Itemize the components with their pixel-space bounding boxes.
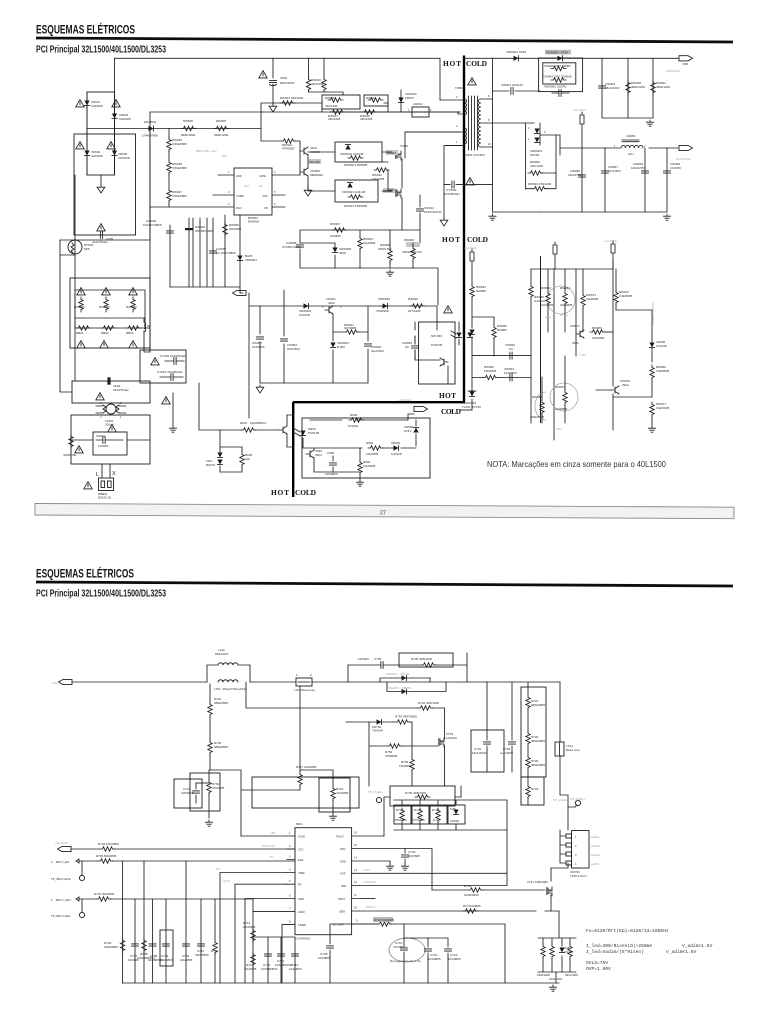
svg-text:LED2+: LED2+ bbox=[591, 844, 601, 848]
svg-text:1: 1 bbox=[228, 170, 230, 174]
svg-text:103/0805NC: 103/0805NC bbox=[261, 967, 279, 971]
resistor R717b bbox=[463, 909, 478, 913]
svg-text:5R5: 5R5 bbox=[84, 247, 90, 251]
svg-text:VSB: VSB bbox=[682, 62, 688, 66]
svg-text:6: 6 bbox=[289, 894, 291, 898]
svg-text:104/25V: 104/25V bbox=[670, 166, 681, 170]
svg-text:103/0.5kVNC: 103/0.5kVNC bbox=[424, 210, 443, 214]
svg-text:5uH: 5uH bbox=[628, 152, 634, 156]
svg-text:V761: V761 bbox=[527, 880, 534, 884]
svg-text:8: 8 bbox=[289, 920, 291, 924]
svg-text:10k/0805: 10k/0805 bbox=[363, 464, 376, 468]
svg-text:SRA/0805: SRA/0805 bbox=[195, 953, 209, 957]
wire secondary vertical bbox=[492, 58, 494, 212]
svg-text:RA1206: RA1206 bbox=[99, 305, 110, 309]
svg-text:R707: R707 bbox=[94, 892, 102, 896]
bus cluster bbox=[170, 286, 240, 288]
svg-text:5: 5 bbox=[274, 190, 276, 194]
diode VDW904 bbox=[558, 56, 563, 61]
warn box1 bbox=[96, 393, 104, 400]
svg-text:RW907: RW907 bbox=[330, 222, 340, 226]
svg-text:COLD: COLD bbox=[441, 407, 461, 416]
resistor R731 bbox=[526, 695, 530, 710]
svg-text:RB01: RB01 bbox=[76, 331, 84, 335]
svg-text:TP_BKLT-ADJ: TP_BKLT-ADJ bbox=[51, 914, 71, 918]
svg-text:2R0/1206: 2R0/1206 bbox=[549, 977, 562, 981]
pin +12.2Vsb opto bbox=[470, 249, 474, 261]
ground 100V bbox=[646, 120, 653, 126]
svg-text:CB: CB bbox=[264, 206, 268, 210]
inductor LW966 bbox=[622, 140, 639, 142]
transistor VW906 bbox=[300, 168, 308, 176]
pins xw701 bbox=[566, 834, 572, 838]
resistor RA01 bbox=[79, 297, 83, 312]
capacitor C704 bbox=[183, 944, 190, 946]
ground bottom cold bbox=[356, 480, 363, 486]
capacitor C753 bbox=[509, 742, 516, 744]
wire rectifier out bbox=[540, 135, 678, 148]
svg-text:4160: 4160 bbox=[328, 301, 335, 305]
svg-text:1N4148: 1N4148 bbox=[299, 313, 310, 317]
bus fb1 bbox=[472, 355, 531, 357]
svg-text:101/0805: 101/0805 bbox=[448, 957, 461, 961]
dual diode VDW903 bbox=[526, 123, 540, 189]
svg-text:10P/0805: 10P/0805 bbox=[106, 842, 119, 846]
svg-text:PV/1206: PV/1206 bbox=[413, 818, 425, 822]
svg-text:+12.2Vsb: +12.2Vsb bbox=[464, 246, 477, 250]
wire c726 top bbox=[196, 782, 209, 784]
svg-text:0.9k/0805: 0.9k/0805 bbox=[656, 406, 670, 410]
svg-text:CY602 103/250Vac: CY602 103/250Vac bbox=[160, 354, 186, 358]
svg-text:9: 9 bbox=[356, 919, 358, 923]
svg-text:476/0805: 476/0805 bbox=[393, 945, 406, 949]
diode VDW910 bbox=[345, 145, 350, 150]
svg-text:VIN: VIN bbox=[52, 681, 57, 685]
resistor RW90C bbox=[358, 236, 362, 251]
wire stub to cold box bbox=[287, 415, 293, 447]
box bottom cold bbox=[302, 418, 430, 478]
svg-text:5: 5 bbox=[289, 879, 291, 883]
svg-text:CHR208: CHR208 bbox=[91, 154, 103, 158]
diode VD966 bbox=[413, 428, 418, 433]
resistor R712 bbox=[213, 940, 217, 955]
left pin stubs bbox=[287, 836, 295, 925]
boxed row R70B2 bbox=[412, 805, 429, 824]
box filter upper bbox=[140, 350, 186, 383]
ground mid cluster bbox=[256, 385, 264, 393]
svg-text:10k/0805: 10k/0805 bbox=[484, 369, 497, 373]
capacitor C708 bbox=[149, 944, 156, 946]
svg-text:2: 2 bbox=[430, 108, 432, 112]
svg-text:R704: R704 bbox=[98, 842, 106, 846]
resistor RW918 bbox=[362, 110, 377, 114]
svg-text:Da segurança até o fim: Da segurança até o fim bbox=[390, 959, 422, 963]
diode VD964 bbox=[394, 445, 399, 450]
diode VDW960 bbox=[383, 303, 388, 308]
svg-text:TP_VLED+: TP_VLED+ bbox=[368, 790, 383, 794]
transistor VW921 bbox=[325, 306, 333, 314]
capacitor CW963 bbox=[510, 374, 512, 381]
svg-text:TL431 BOT25: TL431 BOT25 bbox=[462, 405, 481, 409]
svg-text:RW912: RW912 bbox=[366, 96, 376, 100]
resistor left edge bbox=[69, 434, 73, 449]
svg-text:+12.2Vsb: +12.2Vsb bbox=[573, 108, 586, 112]
svg-text:47R/1206: 47R/1206 bbox=[530, 164, 543, 168]
wire top cold bus bbox=[464, 57, 678, 59]
svg-text:VD751: VD751 bbox=[402, 686, 412, 690]
capacitor CAW67 bbox=[210, 251, 217, 253]
bus fb2 bbox=[472, 356, 531, 391]
gray circle 3 bbox=[535, 392, 546, 420]
divider line 2 bbox=[292, 402, 294, 497]
grounds drv bbox=[386, 864, 393, 870]
resistor R701 bbox=[208, 702, 212, 717]
svg-text:GND: GND bbox=[340, 860, 346, 864]
svg-text:680k/0805: 680k/0805 bbox=[531, 763, 545, 767]
svg-text:69V/1206: 69V/1206 bbox=[565, 973, 578, 977]
wire y91 bbox=[493, 90, 541, 92]
bus bottom bbox=[123, 982, 559, 984]
svg-text:1N4148: 1N4148 bbox=[656, 344, 667, 348]
wire main vertical right bbox=[560, 682, 568, 830]
resistor R753 bbox=[410, 757, 414, 772]
svg-text:104/0805: 104/0805 bbox=[252, 345, 265, 349]
resistor RW921 bbox=[344, 330, 359, 334]
capacitor C601 bbox=[272, 58, 274, 104]
svg-text:R944: R944 bbox=[366, 441, 374, 445]
resistor RW971 bbox=[581, 293, 585, 308]
divider line 1 bbox=[463, 56, 465, 403]
svg-text:BKLT_ADJ: BKLT_ADJ bbox=[56, 898, 71, 902]
opto M960 bbox=[300, 431, 305, 436]
wire mosfets bbox=[382, 152, 402, 230]
svg-text:SS2200: SS2200 bbox=[386, 672, 397, 676]
svg-text:HOT: HOT bbox=[442, 235, 460, 244]
svg-text:LED3+: LED3+ bbox=[591, 853, 601, 857]
svg-text:1N4007R6b: 1N4007R6b bbox=[142, 134, 158, 138]
svg-text:10: 10 bbox=[354, 906, 357, 910]
resistor R70B bbox=[142, 938, 146, 953]
header rule 1 bbox=[36, 37, 733, 44]
vertical CW952 bbox=[283, 290, 285, 383]
svg-text:68uF/200V: 68uF/200V bbox=[605, 86, 620, 90]
svg-text:CW904 CRV 2050HZ: CW904 CRV 2050HZ bbox=[543, 75, 572, 79]
resistor RW90x bbox=[223, 222, 227, 237]
svg-text:MD1: MD1 bbox=[296, 822, 303, 826]
svg-text:PROT: PROT bbox=[338, 897, 346, 901]
wire y722 bbox=[346, 721, 412, 723]
resistor R717m bbox=[298, 772, 302, 787]
wire caps top bbox=[486, 682, 488, 730]
svg-text:848k/120E: 848k/120E bbox=[214, 133, 228, 137]
svg-text:BAV70: BAV70 bbox=[206, 463, 215, 467]
svg-text:VDW913 1N4148: VDW913 1N4148 bbox=[342, 190, 366, 194]
svg-text:PC817B: PC817B bbox=[431, 343, 442, 347]
svg-text:10k/0805: 10k/0805 bbox=[366, 452, 379, 456]
bus2 wire bbox=[87, 103, 460, 129]
svg-text:12: 12 bbox=[354, 880, 357, 884]
svg-text:15.0a: 15.0a bbox=[560, 313, 568, 317]
svg-text:NW 960: NW 960 bbox=[431, 334, 442, 338]
wire y305 bbox=[380, 306, 437, 322]
capacitor C711 bbox=[198, 944, 205, 946]
header rule 2 bbox=[36, 581, 733, 588]
wire adim bbox=[79, 899, 287, 912]
connector out 100V bbox=[679, 56, 693, 61]
svg-text:OVLS=75V: OVLS=75V bbox=[586, 960, 608, 966]
resistor R736 bbox=[415, 795, 430, 799]
box caps C752 C753 bbox=[471, 730, 504, 772]
svg-text:3: 3 bbox=[456, 95, 458, 99]
wire drain bbox=[405, 132, 460, 158]
wire vcc bbox=[71, 848, 295, 850]
resistor RW926 bbox=[167, 137, 171, 152]
resistor R768 bbox=[568, 944, 572, 959]
svg-text:1.5V: 1.5V bbox=[580, 353, 586, 357]
svg-text:10k/0805: 10k/0805 bbox=[560, 303, 573, 307]
svg-text:20/100: 20/100 bbox=[530, 153, 540, 157]
svg-text:1: 1 bbox=[575, 835, 577, 839]
capacitor MM501 bbox=[103, 437, 105, 444]
cap DW900 bbox=[185, 228, 193, 230]
svg-text:680k/0805: 680k/0805 bbox=[214, 701, 228, 705]
diode VDW901 bbox=[514, 56, 519, 61]
IC pins bbox=[150, 175, 300, 207]
wire RW972 to diode bbox=[616, 309, 652, 311]
resistor RW909 gray bbox=[406, 242, 420, 247]
wire varistor verticals bbox=[87, 58, 115, 175]
ground feedback bbox=[648, 426, 655, 432]
wires V750 bbox=[444, 708, 446, 786]
top bus feedback bbox=[531, 268, 613, 270]
ground output bbox=[663, 214, 670, 220]
connector VIN bbox=[59, 679, 73, 684]
svg-text:BKLT_EN: BKLT_EN bbox=[56, 860, 69, 864]
svg-text:TP_VLED+: TP_VLED+ bbox=[553, 798, 568, 802]
capacitor CYW60 bridging bbox=[444, 146, 493, 185]
svg-text:RW968: RW968 bbox=[532, 395, 542, 399]
svg-text:104/0805: 104/0805 bbox=[289, 967, 302, 971]
wire y212 bbox=[493, 211, 541, 213]
mosfet VW902 bbox=[396, 189, 401, 198]
wire caps verticals bbox=[540, 148, 667, 212]
resistor RW967 bbox=[563, 390, 567, 405]
resistor RW905 bbox=[181, 126, 196, 130]
svg-text:CUF6902C: CUF6902C bbox=[296, 937, 312, 941]
resistor RW917 bbox=[330, 110, 345, 114]
diode VDW907 bbox=[237, 256, 242, 261]
wire C735 drop bbox=[347, 665, 349, 682]
svg-text:VDW960: VDW960 bbox=[378, 297, 390, 301]
box filter lower bbox=[71, 415, 150, 464]
warn row 2 bbox=[77, 341, 85, 348]
warn transformer top bbox=[468, 78, 476, 85]
boxed row VD70 bbox=[448, 805, 465, 824]
svg-text:HOT: HOT bbox=[443, 59, 461, 68]
wire isw bbox=[360, 873, 507, 885]
capacitor CW969NC bbox=[412, 346, 419, 348]
ground CYW60 bbox=[443, 185, 445, 218]
resistor RW927 bbox=[167, 188, 171, 203]
wire vin bbox=[72, 681, 462, 683]
svg-text:COLD: COLD bbox=[466, 59, 487, 68]
svg-text:2k4/0805: 2k4/0805 bbox=[555, 407, 568, 411]
ground secondary bbox=[489, 214, 496, 220]
svg-text:4TR0805: 4TR0805 bbox=[282, 147, 295, 151]
resistor R703 bbox=[207, 780, 211, 795]
svg-text:L: L bbox=[96, 472, 99, 478]
resistor R716 bbox=[331, 786, 335, 801]
diode VDW913 bbox=[347, 183, 352, 188]
svg-text:3: 3 bbox=[228, 202, 230, 206]
svg-text:0.56k/0805: 0.56k/0805 bbox=[172, 142, 187, 146]
secondary pin wires bbox=[481, 99, 526, 147]
svg-text:CHR208: CHR208 bbox=[119, 117, 131, 121]
svg-text:R70B: R70B bbox=[414, 808, 422, 812]
svg-text:Bead core: Bead core bbox=[566, 748, 580, 752]
wire bus2 bbox=[150, 112, 460, 240]
diode VD761 bbox=[559, 948, 564, 953]
svg-text:Hsc: Hsc bbox=[244, 184, 250, 188]
svg-text:7R0/W08: 7R0/W08 bbox=[376, 309, 389, 313]
transistor V960 bbox=[306, 450, 314, 458]
svg-text:90V: 90V bbox=[222, 154, 227, 158]
resistor RW977 bbox=[650, 402, 654, 417]
svg-text:RW963: RW963 bbox=[541, 286, 551, 290]
svg-text:1N4148: 1N4148 bbox=[391, 452, 402, 456]
ground left block bbox=[100, 175, 102, 185]
resistor RW928 bbox=[167, 160, 171, 175]
svg-text:R761: R761 bbox=[464, 884, 472, 888]
svg-text:68uF/400V: 68uF/400V bbox=[280, 81, 295, 85]
capacitor C7K3 bbox=[445, 949, 452, 951]
svg-text:VCE: VCE bbox=[262, 194, 268, 198]
ground main bbox=[549, 985, 556, 991]
bus y230 bbox=[300, 230, 420, 243]
wire R736 bbox=[384, 797, 461, 836]
resistor RB01 bbox=[76, 326, 91, 330]
resistor R750 bbox=[387, 744, 402, 748]
svg-text:50k/0805: 50k/0805 bbox=[102, 892, 115, 896]
capacitor CW957 bbox=[257, 337, 264, 339]
box R716 bbox=[319, 778, 350, 812]
wire network bbox=[75, 290, 145, 318]
capacitor C965 bbox=[330, 463, 337, 465]
svg-text:14B/400V: 14B/400V bbox=[535, 880, 548, 884]
capacitor C71B bbox=[327, 946, 334, 948]
svg-text:6: 6 bbox=[488, 94, 490, 98]
capacitor CY602 bbox=[174, 358, 176, 365]
resistor RB0a bbox=[101, 326, 116, 330]
capacitor CY601 bbox=[171, 374, 173, 381]
svg-text:7: 7 bbox=[289, 907, 291, 911]
resistor RW965c bbox=[483, 375, 498, 379]
svg-text:R931: R931 bbox=[240, 421, 248, 425]
svg-text:390a: 390a bbox=[622, 383, 629, 387]
IC MD1 box bbox=[295, 828, 352, 935]
capacitor CAW66 bbox=[167, 231, 174, 233]
svg-text:RW906: RW906 bbox=[216, 119, 226, 123]
svg-text:5R: 5R bbox=[147, 324, 152, 328]
svg-text:VW971: VW971 bbox=[570, 324, 580, 328]
svg-text:FR107: FR107 bbox=[405, 96, 414, 100]
svg-text:PCI Principal 32L1500/40L1500/: PCI Principal 32L1500/40L1500/DL3253 bbox=[36, 45, 166, 56]
svg-text:1: 1 bbox=[408, 108, 410, 112]
svg-text:10-105/V/0805: 10-105/V/0805 bbox=[216, 251, 236, 255]
inductor L704 bbox=[555, 742, 564, 756]
capacitor CW912 bbox=[417, 209, 424, 211]
svg-text:CW905 CRV 205BV: CW905 CRV 205BV bbox=[544, 64, 571, 68]
wire box right drop bbox=[453, 653, 467, 682]
resistor R742 bbox=[418, 706, 433, 710]
svg-text:RAO: RAO bbox=[236, 206, 242, 210]
gray label 750 bbox=[308, 159, 321, 164]
resistor R707 bbox=[96, 897, 111, 901]
resistor RB02 bbox=[126, 326, 141, 330]
svg-text:27: 27 bbox=[380, 510, 386, 516]
box chain 2 bbox=[521, 777, 544, 805]
wire y430 bbox=[199, 383, 279, 430]
resistor RW903 bbox=[532, 187, 547, 191]
svg-text:22uF/50V: 22uF/50V bbox=[287, 347, 300, 351]
wire gate bbox=[432, 863, 568, 911]
svg-text:0.56k/0805: 0.56k/0805 bbox=[172, 194, 187, 198]
box C726 bbox=[174, 779, 202, 808]
resistor RT601 bbox=[144, 318, 150, 352]
label VDW904 gray bbox=[545, 50, 571, 55]
svg-text:4R5/0.5W: 4R5/0.5W bbox=[378, 247, 392, 251]
svg-text:OVP=1.90V: OVP=1.90V bbox=[586, 966, 611, 972]
resistor RW918b bbox=[348, 156, 363, 160]
svg-text:14: 14 bbox=[354, 856, 357, 860]
svg-text:UVLB: UVLB bbox=[298, 835, 305, 839]
svg-text:100V/0.3A: 100V/0.3A bbox=[666, 69, 680, 73]
warn lower box bbox=[108, 425, 116, 432]
snubber box bbox=[539, 58, 583, 92]
resistor RW901 bbox=[651, 80, 655, 95]
svg-text:820uH/1A: 820uH/1A bbox=[215, 652, 228, 656]
bus y383 bbox=[260, 382, 368, 384]
box driver 2 bbox=[335, 180, 378, 202]
capacitor C716 bbox=[401, 948, 408, 950]
svg-text:3: 3 bbox=[544, 130, 546, 134]
warn opto bbox=[444, 306, 452, 313]
resistor R752 bbox=[395, 720, 410, 724]
svg-text:SS2200: SS2200 bbox=[388, 686, 399, 690]
svg-text:20k/0805: 20k/0805 bbox=[229, 227, 242, 231]
svg-text:5V: 5V bbox=[270, 855, 274, 859]
resistor R765 bbox=[541, 944, 545, 959]
wire verticals bbox=[602, 58, 653, 118]
varistor VD604 bbox=[112, 100, 120, 107]
capacitor CW904 bbox=[559, 90, 561, 97]
svg-text:103/0805: 103/0805 bbox=[318, 956, 331, 960]
capacitor CW966 bbox=[579, 175, 586, 177]
svg-text:4: 4 bbox=[100, 415, 102, 419]
wire tl431 down bbox=[460, 409, 472, 411]
svg-text:,PLa: ,PLa bbox=[545, 315, 552, 319]
svg-text:9k0805: 9k0805 bbox=[476, 289, 486, 293]
resistor RW908 bbox=[388, 248, 392, 263]
wire mid bbox=[210, 770, 300, 836]
wire through box bbox=[71, 439, 150, 441]
pin +12.2Vsb bbox=[580, 112, 584, 124]
svg-text:TPW-2.0mm: TPW-2.0mm bbox=[570, 874, 587, 878]
svg-text:10k/0805: 10k/0805 bbox=[363, 241, 376, 245]
ground mid bbox=[172, 393, 174, 426]
ground driver bbox=[307, 176, 309, 188]
divider line 3 bbox=[540, 256, 542, 423]
